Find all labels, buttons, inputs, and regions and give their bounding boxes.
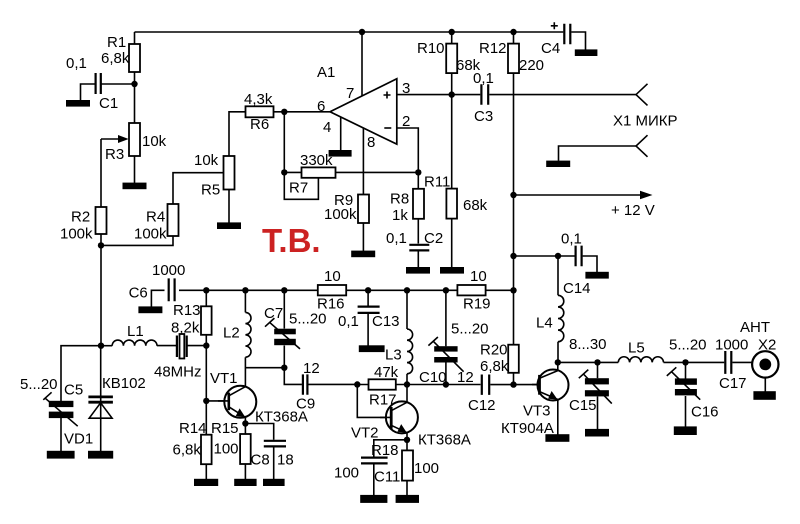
- ground C6: [138, 306, 162, 313]
- junction dot C7 top: [281, 287, 287, 293]
- svg-text:АНТ: АНТ: [740, 319, 770, 336]
- svg-text:C1: C1: [99, 95, 118, 112]
- svg-text:КТ368А: КТ368А: [255, 409, 308, 426]
- svg-text:L1: L1: [127, 323, 144, 340]
- op-amp minus input mark: [384, 127, 391, 129]
- svg-text:КВ102: КВ102: [102, 375, 146, 392]
- capacitor C14 0,1: [576, 246, 582, 267]
- junction dot VT1 emitter: [242, 420, 248, 426]
- svg-text:5...20: 5...20: [20, 376, 58, 393]
- svg-text:R20: R20: [480, 342, 508, 359]
- op-amp plus input mark: [384, 92, 391, 99]
- potentiometer R3 wiper arrow: [101, 138, 120, 140]
- wire L5 right to C17: [664, 361, 725, 363]
- connector X1 pin 2 fork: [636, 135, 648, 157]
- svg-text:R2: R2: [71, 209, 90, 226]
- ground R14: [194, 479, 218, 486]
- svg-text:100: 100: [414, 460, 439, 477]
- ground R11: [440, 267, 464, 274]
- wire R13 column: [205, 290, 207, 401]
- junction dot C16 tap: [682, 359, 688, 365]
- ground R5: [217, 222, 241, 229]
- svg-text:C5: C5: [64, 382, 83, 399]
- wire op-amp pin 3 output line: [397, 94, 481, 96]
- wire C13 bottom to ground: [367, 314, 369, 346]
- wire C17 right to connector X2: [732, 361, 752, 363]
- ground X1 pin 2: [546, 161, 570, 167]
- svg-text:10k: 10k: [142, 133, 167, 150]
- wire C7 bottom lead: [283, 346, 285, 368]
- wire +12V arrow line: [514, 194, 643, 196]
- junction dot rail pin 7: [359, 29, 365, 35]
- svg-text:R6: R6: [250, 116, 269, 133]
- svg-text:C7: C7: [264, 305, 283, 322]
- svg-text:100k: 100k: [324, 206, 357, 223]
- resistor R2: [96, 207, 107, 234]
- junction dot L4 top: [555, 253, 561, 259]
- wire node C down to R7 node: [283, 112, 285, 173]
- svg-text:R11: R11: [424, 174, 450, 191]
- wire L2 top lead: [244, 290, 246, 312]
- wire C14 branch line: [514, 255, 575, 257]
- svg-text:5...20: 5...20: [289, 311, 327, 328]
- ground C15: [585, 429, 609, 437]
- resistor R6: [246, 106, 274, 117]
- wire VT3 collector lead: [557, 362, 559, 370]
- capacitor C9: [303, 374, 308, 394]
- resistor R17: [369, 379, 396, 389]
- svg-text:0,1: 0,1: [66, 55, 87, 72]
- resistor R10: [446, 44, 457, 74]
- svg-text:C16: C16: [691, 404, 719, 421]
- wire left column node B down to varicap node: [100, 245, 102, 345]
- arrowhead +12V: [640, 191, 653, 199]
- svg-text:4,3k: 4,3k: [244, 91, 273, 108]
- svg-text:C4: C4: [541, 40, 560, 57]
- svg-text:7: 7: [346, 85, 354, 102]
- svg-text:R12: R12: [479, 40, 507, 57]
- wire L2 bottom and VT1 collector column: [244, 357, 246, 387]
- junction dot VT3 base node: [510, 381, 516, 387]
- junction dot pin3 R10-R11: [449, 91, 455, 97]
- svg-text:8,2k: 8,2k: [171, 320, 200, 337]
- ground R9: [351, 251, 375, 258]
- wire R12 +12V column: [513, 32, 515, 345]
- wire C1 left lead and ground stub: [81, 84, 95, 100]
- trimmer capacitor C5: [49, 401, 74, 407]
- resistor R12: [508, 44, 519, 74]
- wire R3 wiper column: [100, 139, 102, 207]
- wire C5 bottom to ground: [60, 417, 62, 451]
- svg-text:C8: C8: [251, 452, 270, 469]
- svg-text:10: 10: [324, 268, 341, 285]
- capacitor C6: [169, 278, 175, 301]
- wire C8 bottom to ground: [273, 447, 275, 479]
- wire X2 to ground: [764, 378, 766, 392]
- ground X2: [753, 391, 775, 400]
- resistor R4: [168, 204, 179, 236]
- wire C12 right to VT3 base node: [490, 384, 513, 386]
- trimmer capacitor C15: [585, 378, 609, 384]
- svg-text:R17: R17: [369, 392, 397, 409]
- svg-text:VD1: VD1: [64, 431, 93, 448]
- capacitor C1: [96, 73, 101, 94]
- resistor R14: [201, 435, 212, 465]
- wire op-amp pin 7 from rail: [361, 32, 363, 96]
- svg-text:R18: R18: [371, 442, 399, 459]
- wire C11 bottom to ground: [373, 464, 375, 495]
- resistor R11: [446, 189, 457, 219]
- connector X1 pin 1 fork: [636, 84, 648, 106]
- junction dot VT3 collector: [555, 359, 561, 365]
- svg-text:100k: 100k: [134, 226, 167, 243]
- wire R1 top lead: [134, 32, 136, 44]
- inductor L5: [618, 357, 663, 363]
- svg-text:C13: C13: [372, 313, 400, 330]
- ground op-amp pin 4: [329, 150, 352, 157]
- wire R14 leads: [205, 401, 207, 479]
- wire R3 bottom to ground: [134, 156, 136, 183]
- wire C13 top lead: [367, 290, 369, 306]
- transistor VT3: [538, 370, 569, 401]
- svg-text:100: 100: [334, 465, 359, 482]
- wire pin 3 line after C3 to connector X1: [489, 94, 636, 96]
- svg-text:C2: C2: [424, 230, 443, 247]
- resistor R15: [240, 434, 251, 464]
- trimmer capacitor C10: [434, 346, 457, 351]
- junction dot L3 top: [404, 287, 410, 293]
- svg-text:100: 100: [214, 441, 239, 458]
- junction dot L3 bottom VT2 collector: [404, 381, 410, 387]
- junction dot C13 top: [365, 287, 371, 293]
- wire L4 bottom lead: [557, 342, 559, 363]
- potentiometer R3: [129, 123, 140, 156]
- connector X2 antenna socket: [752, 351, 778, 377]
- svg-text:18: 18: [277, 452, 294, 469]
- node B junction dot R2-R4: [98, 242, 104, 248]
- capacitor C12: [482, 375, 489, 395]
- wire C15 bottom to ground: [597, 397, 599, 430]
- wire L2 bottom to C7 node: [245, 367, 284, 369]
- varicap diode VD1 KB102: [88, 397, 113, 402]
- transistor VT2: [386, 401, 418, 433]
- svg-text:КТ368А: КТ368А: [418, 432, 471, 449]
- node D junction dot R7 left: [281, 169, 287, 175]
- wire L4 top lead: [557, 256, 559, 295]
- wire R7 lower loop: [284, 172, 318, 199]
- resistor R8: [413, 189, 424, 219]
- resistor R19: [457, 285, 485, 295]
- wire R6 right to op-amp pin 6: [274, 111, 331, 113]
- resistor R7: [302, 167, 336, 177]
- ground R3: [123, 183, 147, 190]
- wire R7 line: [284, 171, 418, 173]
- wire C4 right to ground: [571, 32, 585, 50]
- wire L1 to crystal: [157, 345, 176, 347]
- junction dot rail R10: [449, 29, 455, 35]
- svg-text:C3: C3: [474, 108, 493, 125]
- svg-text:6,8k: 6,8k: [101, 50, 130, 67]
- svg-text:X1 МИКР: X1 МИКР: [613, 113, 678, 130]
- ground C11: [360, 495, 387, 503]
- svg-text:C12: C12: [468, 397, 496, 414]
- wire op-amp pin 4 to ground: [340, 117, 342, 150]
- wire C10 column: [445, 290, 447, 346]
- svg-text:R1: R1: [107, 34, 126, 51]
- wire VD1 lead: [100, 346, 102, 452]
- wire R20 bottom lead: [513, 373, 515, 385]
- node E junction dot R7 right: [415, 169, 421, 175]
- ground R15: [234, 479, 256, 486]
- wire L3 top lead: [406, 290, 408, 329]
- wire L1 left lead: [101, 345, 112, 347]
- wire X1 ground pin: [559, 146, 637, 161]
- svg-text:L2: L2: [223, 325, 240, 342]
- ground C16: [674, 426, 697, 435]
- wire VT1 emitter lead: [244, 417, 246, 424]
- transistor VT1: [224, 386, 256, 418]
- wire VT3 emitter to ground: [557, 400, 559, 435]
- svg-text:VT3: VT3: [523, 403, 551, 420]
- svg-text:3: 3: [402, 80, 410, 97]
- wire VT3 base lead: [514, 384, 540, 386]
- wire C6 left lead to ground: [151, 290, 164, 306]
- wire R2 bottom lead: [100, 234, 102, 245]
- svg-text:L3: L3: [385, 347, 402, 364]
- capacitor C4: [564, 24, 570, 44]
- ground R18: [396, 495, 419, 503]
- capacitor C4 plus sign: [551, 22, 558, 29]
- resistor R18: [402, 450, 413, 480]
- trimmer capacitor C16: [675, 378, 697, 384]
- ground C13: [359, 345, 385, 352]
- svg-text:330k: 330k: [300, 152, 333, 169]
- junction dot R13 top: [203, 287, 209, 293]
- wire R9 bottom to ground: [362, 223, 364, 251]
- resistor R13: [201, 306, 212, 335]
- wire VT3 collector row to L5: [558, 361, 619, 363]
- trimmer capacitor C7: [274, 329, 296, 335]
- svg-text:8: 8: [367, 134, 375, 151]
- ground VT3 emitter: [545, 434, 569, 442]
- wire 0,1 cap right to ground: [583, 256, 597, 272]
- wire C1 right lead: [101, 83, 134, 85]
- wire C10 bottom lead: [445, 362, 447, 384]
- svg-text:8...30: 8...30: [569, 336, 607, 353]
- wire R10 column: [451, 32, 453, 95]
- junction dot crystal R13: [203, 342, 209, 348]
- svg-text:R5: R5: [201, 182, 220, 199]
- wire R8 bottom to C2 ground: [417, 251, 419, 268]
- junction dot C10 top: [443, 287, 449, 293]
- inductor L4: [558, 295, 564, 341]
- wire op-amp pin 2 to node E: [397, 128, 419, 172]
- svg-text:0,1: 0,1: [386, 230, 407, 247]
- junction dot oscillator rail join: [510, 287, 516, 293]
- junction dot C9 out: [354, 381, 360, 387]
- svg-text:A1: A1: [317, 64, 335, 81]
- capacitor C17: [725, 351, 731, 374]
- svg-text:R10: R10: [417, 40, 445, 57]
- svg-text:12: 12: [303, 360, 320, 377]
- junction dot C14 branch: [510, 253, 516, 259]
- wire C15 top lead: [597, 362, 599, 378]
- svg-text:VT2: VT2: [351, 425, 379, 442]
- wire VT2 emitter lead: [406, 433, 408, 440]
- inductor L3: [407, 329, 413, 374]
- wire VT2 collector lead: [406, 385, 408, 403]
- node A junction dot: [131, 81, 137, 87]
- svg-text:R14: R14: [179, 420, 207, 437]
- wire C7 node down to C9: [284, 368, 302, 385]
- wire R1 bottom to node A: [134, 72, 136, 123]
- resistor R1: [129, 44, 140, 72]
- svg-text:4: 4: [323, 119, 331, 136]
- svg-text:+ 12 V: + 12 V: [611, 202, 655, 219]
- wire L3 bottom lead: [406, 374, 408, 385]
- wire node B to R4 bottom: [101, 236, 173, 245]
- svg-text:5...20: 5...20: [669, 337, 707, 354]
- wire C8 branch: [245, 424, 273, 440]
- svg-text:КТ904А: КТ904А: [501, 420, 554, 437]
- wire C11 branch: [374, 440, 407, 457]
- ground C8: [263, 479, 285, 486]
- wire R5 bottom to ground: [228, 190, 230, 224]
- svg-text:R3: R3: [105, 146, 124, 163]
- op-amp A1: [330, 79, 397, 144]
- capacitor C13: [358, 307, 380, 313]
- capacitor C8: [264, 441, 286, 447]
- resistor R9: [358, 195, 369, 224]
- svg-text:R7: R7: [289, 180, 308, 197]
- svg-text:C6: C6: [129, 285, 148, 302]
- capacitor C11: [361, 458, 388, 464]
- ground VD1: [88, 451, 113, 459]
- ground C14 side cap: [585, 272, 608, 279]
- svg-text:C10: C10: [419, 369, 447, 386]
- svg-text:C11: C11: [374, 469, 400, 486]
- svg-text:1k: 1k: [392, 207, 408, 224]
- ground C1: [66, 100, 90, 107]
- junction dot L2 top: [242, 287, 248, 293]
- wire VT1 base lead: [206, 400, 227, 402]
- svg-text:Т.В.: Т.В.: [262, 222, 321, 259]
- junction dot VT2 emitter: [404, 437, 410, 443]
- resistor R16: [318, 285, 346, 295]
- junction dot C7 bottom node: [281, 365, 287, 371]
- svg-text:R13: R13: [173, 302, 201, 319]
- svg-text:0,1: 0,1: [473, 70, 494, 87]
- wire R5 top to R6 left: [229, 112, 246, 156]
- wire oscillator supply rail: [179, 289, 514, 291]
- inductor L2: [245, 312, 251, 357]
- wire C7 column: [283, 290, 285, 328]
- wire R17 line VT2 collector row: [357, 384, 480, 386]
- wire C16 bottom to ground: [685, 396, 687, 427]
- svg-text:6,8k: 6,8k: [480, 358, 509, 375]
- wire R11 column: [451, 95, 453, 219]
- svg-text:6: 6: [317, 98, 325, 115]
- svg-text:R4: R4: [146, 209, 165, 226]
- node C junction dot after R6: [281, 109, 287, 115]
- svg-text:C15: C15: [569, 397, 597, 414]
- junction dot rail R12: [510, 29, 516, 35]
- junction dot C10 bottom: [443, 381, 449, 387]
- ground C5: [47, 451, 75, 459]
- wire R18 leads: [406, 440, 408, 495]
- wire C16 top lead: [685, 362, 687, 378]
- wire VT2 base tap: [357, 385, 391, 418]
- svg-text:0,1: 0,1: [561, 231, 582, 248]
- junction dot C15 tap: [594, 359, 600, 365]
- capacitor C2: [409, 245, 429, 251]
- wire C5 branch: [61, 346, 101, 402]
- svg-text:5...20: 5...20: [451, 321, 489, 338]
- wire op-amp pin 8 to R9: [362, 128, 364, 223]
- junction dot varicap node: [98, 343, 104, 349]
- svg-text:6,8k: 6,8k: [173, 442, 202, 459]
- junction dot VT1 base: [203, 398, 209, 404]
- wire top supply rail: [135, 31, 564, 33]
- svg-text:C17: C17: [719, 375, 747, 392]
- svg-text:68k: 68k: [463, 197, 488, 214]
- svg-text:10k: 10k: [194, 152, 219, 169]
- inductor L1: [112, 340, 157, 346]
- crystal ZQ1 48MHz: [177, 336, 187, 358]
- wire crystal to R13 node: [188, 345, 207, 347]
- svg-text:12: 12: [457, 369, 474, 386]
- junction dot +12V branch: [510, 192, 516, 198]
- svg-text:1000: 1000: [715, 337, 748, 354]
- svg-text:C14: C14: [563, 280, 591, 297]
- wire R4 top to R5 left: [173, 173, 224, 204]
- svg-text:1000: 1000: [152, 262, 185, 279]
- svg-text:R15: R15: [211, 420, 239, 437]
- svg-text:L5: L5: [628, 340, 645, 357]
- svg-text:X2: X2: [758, 337, 776, 354]
- wire C9 right to VT2 base node: [308, 383, 357, 385]
- svg-text:10: 10: [470, 268, 487, 285]
- ground C4: [575, 49, 598, 56]
- svg-text:R8: R8: [390, 191, 409, 208]
- svg-text:L4: L4: [536, 315, 553, 332]
- svg-text:220: 220: [519, 57, 544, 74]
- wire R11 bottom to ground: [451, 219, 453, 268]
- svg-text:47k: 47k: [374, 364, 399, 381]
- capacitor C3: [481, 84, 488, 105]
- svg-text:100k: 100k: [60, 226, 93, 243]
- svg-text:VT1: VT1: [210, 370, 238, 387]
- wire R8 leads: [417, 172, 419, 243]
- wire R15 leads: [244, 424, 246, 480]
- svg-text:2: 2: [402, 113, 410, 130]
- svg-text:48MHz: 48MHz: [154, 364, 202, 381]
- resistor R5: [224, 156, 235, 190]
- svg-text:R19: R19: [463, 296, 491, 313]
- svg-text:0,1: 0,1: [338, 313, 359, 330]
- resistor R20: [508, 345, 519, 373]
- ground C2: [406, 267, 430, 274]
